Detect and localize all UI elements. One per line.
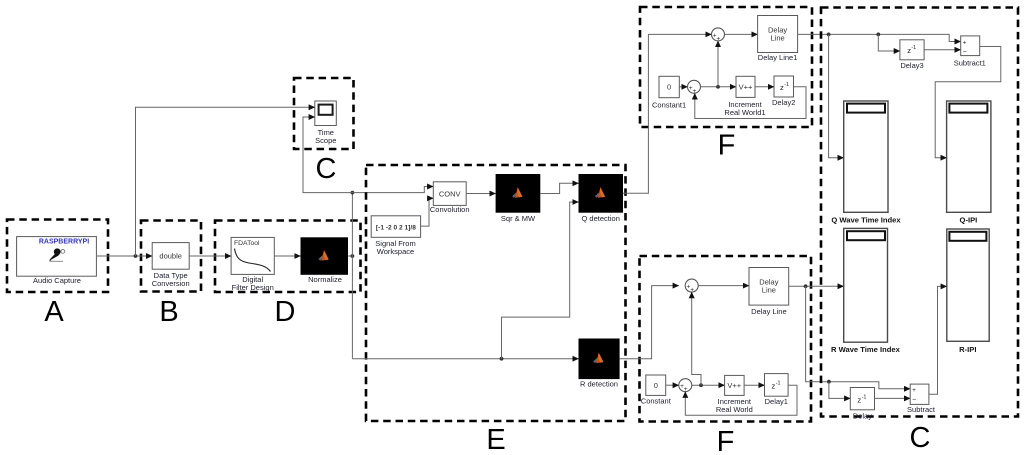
junction dot on R wire bbox=[500, 357, 504, 361]
svg-text:R detection: R detection bbox=[580, 380, 618, 389]
wire Delay3 to Subtract1 bbox=[924, 49, 961, 51]
svg-text:Filter Design: Filter Design bbox=[232, 283, 274, 292]
svg-text:−: − bbox=[912, 397, 916, 404]
wire junction up to Sum1 bbox=[717, 41, 719, 87]
block Convolution (CONV) bbox=[430, 182, 470, 214]
svg-text:D: D bbox=[275, 296, 296, 328]
wire Subtract up to R-IPI bbox=[929, 286, 947, 394]
block Data Type Conversion (double) bbox=[152, 243, 190, 289]
wire Delay2 feedback to Sum2 bbox=[695, 87, 806, 119]
microphone icon bbox=[49, 248, 65, 261]
svg-text:0: 0 bbox=[654, 381, 658, 390]
svg-text:Delay Line: Delay Line bbox=[751, 307, 786, 316]
wire V++ to Delay1 bbox=[744, 384, 764, 386]
display Q Wave Time Index bbox=[831, 101, 901, 225]
svg-text:Real World1: Real World1 bbox=[724, 108, 765, 117]
svg-text:+: + bbox=[963, 39, 967, 46]
block Subtract1 bbox=[954, 36, 986, 67]
svg-text:C: C bbox=[910, 422, 931, 454]
svg-text:V++: V++ bbox=[739, 83, 753, 92]
block R detection bbox=[579, 339, 620, 389]
svg-text:Real World: Real World bbox=[716, 405, 753, 414]
block Q detection bbox=[579, 174, 624, 223]
svg-text:Delay: Delay bbox=[853, 411, 872, 420]
region box D bbox=[215, 221, 361, 293]
block Constant (0) bbox=[641, 375, 672, 405]
svg-text:F: F bbox=[717, 426, 735, 455]
block Subtract bbox=[907, 384, 936, 414]
region box E bbox=[366, 165, 626, 421]
wire Signal From Workspace to CONV input 2 bbox=[421, 198, 434, 226]
svg-text:-1: -1 bbox=[776, 381, 781, 387]
svg-text:Normalize: Normalize bbox=[308, 275, 342, 284]
junction dot top of bus bbox=[351, 191, 355, 195]
svg-text:CONV: CONV bbox=[439, 189, 461, 198]
svg-text:Convolution: Convolution bbox=[430, 205, 470, 214]
wire branch up to Time Scope input 1 bbox=[136, 107, 315, 256]
junction dot counter value (F2) bbox=[699, 383, 703, 387]
svg-text:Subtract1: Subtract1 bbox=[954, 58, 986, 67]
svg-text:Audio Capture: Audio Capture bbox=[33, 276, 81, 285]
svg-text:FDATool: FDATool bbox=[234, 240, 260, 247]
wire Delay to Subtract bbox=[875, 397, 911, 399]
svg-text:Q Wave Time Index: Q Wave Time Index bbox=[831, 216, 901, 225]
wire branch to Q detection input 2 bbox=[502, 202, 579, 359]
sum block Sum2 (F2) bbox=[679, 379, 692, 394]
wire Sum2 to V++ (F2) bbox=[692, 384, 725, 386]
svg-text:Workspace: Workspace bbox=[377, 247, 414, 256]
wire CONV to Sqr & MW bbox=[466, 193, 495, 195]
block Delay (z^-1) bbox=[850, 388, 874, 421]
svg-text:Conversion: Conversion bbox=[152, 279, 190, 288]
block Increment Real World1 (V++) bbox=[724, 76, 765, 117]
wire Constant1 to Sum2 bbox=[679, 86, 687, 88]
region box F1 bbox=[640, 7, 812, 127]
svg-text:A: A bbox=[44, 296, 64, 328]
wire Delay Line1 out to region C bbox=[798, 34, 961, 41]
region box B bbox=[141, 221, 201, 292]
svg-text:Constant1: Constant1 bbox=[652, 100, 686, 109]
wire Digital Filter Design to Normalize bbox=[274, 255, 300, 257]
junction dot bottom chain bbox=[827, 380, 831, 384]
block Increment Real World (V++) bbox=[716, 375, 753, 414]
wire main vertical bus x=352 bbox=[351, 193, 353, 359]
wire bus to Time Scope input 2 bbox=[303, 117, 352, 193]
region box A bbox=[7, 220, 108, 293]
wire branch down to Subtract chain bbox=[806, 286, 911, 389]
block Audio Capture bbox=[17, 237, 97, 285]
block Delay1 (z^-1) bbox=[765, 374, 789, 407]
region box C2 bbox=[821, 8, 1018, 417]
svg-text:Scope: Scope bbox=[315, 136, 336, 145]
svg-text:Constant: Constant bbox=[641, 396, 672, 405]
svg-text:Delay Line1: Delay Line1 bbox=[758, 53, 798, 62]
block Sqr & MW bbox=[496, 174, 541, 223]
block Delay Line1 bbox=[758, 16, 798, 63]
svg-text:[-1 -2 0 2 1]/8: [-1 -2 0 2 1]/8 bbox=[376, 224, 416, 231]
junction dot counter value bbox=[716, 85, 720, 89]
wire down to Q Wave Time Index bbox=[829, 34, 844, 157]
wire Delay Line out to R Wave Time Index bbox=[789, 285, 844, 287]
svg-text:−: − bbox=[963, 49, 967, 56]
wire branch to Delay bbox=[829, 382, 850, 399]
wire Sum1 to Delay Line1 bbox=[725, 33, 758, 35]
wire bus to CONV input 1 bbox=[352, 187, 433, 193]
junction dot Delay3 branch bbox=[876, 33, 880, 37]
svg-text:Delay3: Delay3 bbox=[900, 61, 923, 70]
display R-IPI bbox=[947, 229, 989, 354]
svg-text:Delay1: Delay1 bbox=[765, 397, 788, 406]
region box C top bbox=[294, 78, 354, 149]
wire Sum1 to Delay Line (F2) bbox=[698, 285, 749, 287]
svg-text:Line: Line bbox=[762, 286, 776, 295]
wire V++ to Delay2 bbox=[755, 86, 774, 88]
wire Normalize output to junction bbox=[348, 255, 352, 257]
svg-text:-1: -1 bbox=[784, 82, 789, 88]
block Time Scope bbox=[315, 101, 337, 145]
svg-text:+: + bbox=[912, 387, 916, 394]
wire Q detection to Sum1 bbox=[623, 34, 712, 193]
svg-text:Sqr & MW: Sqr & MW bbox=[501, 214, 536, 223]
wire Constant to Sum2 (F2) bbox=[666, 384, 679, 386]
block Delay Line bbox=[749, 268, 789, 317]
wire Sqr & MW to Q detection input 1 bbox=[540, 183, 578, 193]
region box F2 bbox=[640, 256, 812, 422]
svg-text:R Wave Time Index: R Wave Time Index bbox=[831, 345, 901, 354]
sum block Sum1 (F2) bbox=[685, 279, 698, 294]
svg-text:-1: -1 bbox=[862, 394, 867, 400]
svg-text:V++: V++ bbox=[727, 381, 741, 390]
wire double to Digital Filter Design bbox=[189, 255, 231, 257]
wire R detection to Sum1 (F2) bbox=[620, 286, 679, 359]
svg-text:Q-IPI: Q-IPI bbox=[960, 216, 978, 225]
wire bus to R detection bbox=[352, 358, 578, 360]
svg-text:0: 0 bbox=[667, 83, 671, 92]
svg-text:C: C bbox=[316, 153, 337, 185]
junction dot on Delay Line out bbox=[804, 284, 808, 288]
block Constant1 (0) bbox=[652, 76, 686, 109]
block Delay2 (z^-1) bbox=[772, 76, 795, 107]
display R Wave Time Index bbox=[831, 228, 901, 353]
svg-text:double: double bbox=[159, 252, 182, 261]
svg-text:Q detection: Q detection bbox=[582, 214, 620, 223]
wire branch to Delay3 bbox=[878, 34, 900, 51]
svg-text:Delay2: Delay2 bbox=[772, 98, 795, 107]
wire Sum2 to V++ (Increment Real World1) bbox=[701, 86, 737, 88]
svg-text:Subtract: Subtract bbox=[907, 405, 936, 414]
svg-text:-1: -1 bbox=[911, 45, 916, 51]
svg-text:F: F bbox=[718, 130, 736, 162]
block Delay3 (z^-1) bbox=[900, 40, 924, 70]
sum block Sum1 (F1) bbox=[712, 28, 725, 43]
block Signal From Workspace bbox=[371, 216, 420, 256]
svg-text:B: B bbox=[159, 296, 178, 328]
sum block Sum2 (F1) bbox=[688, 80, 701, 95]
wire Delay1 feedback to Sum2 (F2) bbox=[685, 385, 797, 415]
junction dot at branch to Time Scope bbox=[134, 254, 138, 258]
svg-text:Line: Line bbox=[771, 34, 785, 43]
junction dot entry bbox=[827, 33, 831, 37]
wire Audio Capture to double bbox=[96, 255, 152, 257]
junction dot Normalize output bbox=[351, 254, 355, 258]
display Q-IPI bbox=[947, 101, 991, 225]
block Normalize (MATLAB fcn) bbox=[301, 237, 349, 283]
block Digital Filter Design (FDATool) bbox=[231, 237, 274, 292]
wire Subtract1 to Q-IPI bbox=[935, 47, 1001, 158]
svg-text:E: E bbox=[486, 424, 505, 455]
svg-text:R-IPI: R-IPI bbox=[959, 345, 976, 354]
wire junction up to Sum1 (F2) bbox=[692, 292, 701, 385]
svg-text:RASPBERRYPI: RASPBERRYPI bbox=[39, 239, 89, 246]
